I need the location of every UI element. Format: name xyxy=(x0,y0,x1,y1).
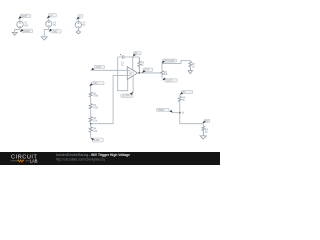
resistor R2 xyxy=(89,104,92,109)
wire flag A to op-amp + input xyxy=(91,69,128,71)
node flag B (top of divider) xyxy=(89,82,104,87)
svg-text:5V: 5V xyxy=(50,14,53,17)
svg-text:LAB: LAB xyxy=(30,159,38,164)
resistor R5 pull-up xyxy=(138,57,141,73)
svg-text:96V: 96V xyxy=(93,82,98,85)
capacitor C2 on rail xyxy=(120,54,124,59)
svg-text:ArduinoElectricRacing - 96V Tr: ArduinoElectricRacing - 96V Trigger High… xyxy=(56,153,130,157)
svg-text:5V: 5V xyxy=(205,120,208,123)
wire op-amp V+ supply stub xyxy=(132,57,134,70)
svg-text:5V: 5V xyxy=(129,74,132,77)
junction divider tap xyxy=(90,123,92,125)
resistor R7 xyxy=(189,62,192,71)
node flag right column top xyxy=(180,91,193,95)
ground (V2) xyxy=(41,37,47,40)
resistor R1 xyxy=(89,92,92,97)
wire op-amp inverting input xyxy=(113,74,127,76)
wire bottom right down + resistor R9 xyxy=(202,124,204,127)
wire op-amp output xyxy=(138,72,162,74)
supply rail wire xyxy=(118,56,140,58)
ground (V1) xyxy=(12,32,17,35)
op-amp OA1 xyxy=(127,67,137,80)
svg-text:OUTPUT: OUTPUT xyxy=(122,95,132,98)
wire V1 top xyxy=(19,19,21,21)
svg-text:700k: 700k xyxy=(93,95,99,98)
voltage source V2 xyxy=(46,21,52,27)
wire V1 bottom xyxy=(15,28,20,33)
node flag V1 bottom xyxy=(20,29,33,33)
node flag BATT (top of V1) xyxy=(18,14,31,19)
svg-text:http://circuitlab.com/c6vr4p8w: http://circuitlab.com/c6vr4p8wz3q xyxy=(56,158,105,162)
svg-text:GND: GND xyxy=(94,139,100,142)
wire V2 top xyxy=(48,18,50,20)
node flag output up xyxy=(162,59,177,63)
wire V3 bottom xyxy=(77,28,79,30)
svg-text:5V: 5V xyxy=(53,24,56,27)
wire op-amp V- stub down xyxy=(132,76,134,92)
ground node diamond (V3) xyxy=(76,30,80,33)
ground (R7) xyxy=(188,71,192,74)
node flag divider bottom xyxy=(91,138,104,143)
wire bottom rail (tap to inverting branch) xyxy=(91,123,113,125)
resistor R3 xyxy=(89,117,92,122)
svg-text:VDIV: VDIV xyxy=(96,66,102,69)
svg-text:OUT2: OUT2 xyxy=(166,80,173,83)
svg-text:5V: 5V xyxy=(183,91,186,94)
footer bar xyxy=(0,152,220,165)
svg-text:TRIGGER: TRIGGER xyxy=(164,60,175,63)
resistor R6 xyxy=(161,71,164,75)
resistor R4 xyxy=(89,127,92,132)
svg-text:5V: 5V xyxy=(82,24,85,27)
voltage source V3 xyxy=(75,22,81,28)
node flag D (below op-amp) xyxy=(121,92,134,98)
ground (bottom right) xyxy=(200,136,206,139)
wire right branch xyxy=(162,61,190,64)
svg-text:96V: 96V xyxy=(24,24,29,27)
resistor R9 xyxy=(202,126,205,136)
node flag A (op-amp + input net) xyxy=(91,65,105,71)
node flag V3 top xyxy=(76,15,83,20)
svg-text:GND: GND xyxy=(52,30,58,33)
wire R6 branch vertical xyxy=(161,63,163,78)
wire V2 bottom xyxy=(44,27,49,37)
resistor R8 xyxy=(178,97,181,102)
node flag W xyxy=(157,108,173,113)
svg-text:BATT: BATT xyxy=(22,15,28,18)
junction output/pullup xyxy=(139,72,141,74)
svg-text:100k: 100k xyxy=(93,106,99,109)
wire feedback left vertical xyxy=(118,57,128,91)
wire right column xyxy=(180,95,204,124)
node flag supply rail xyxy=(133,52,141,57)
wire V3 top xyxy=(77,20,79,22)
node flag output left xyxy=(142,68,153,73)
node flag bottom right corner xyxy=(202,119,209,123)
svg-text:VREF: VREF xyxy=(158,109,165,112)
wire flag W to junction xyxy=(173,112,180,114)
junction right column xyxy=(179,112,181,114)
node flag V2 bottom xyxy=(49,29,62,34)
voltage source V1 xyxy=(17,21,23,27)
node flag output down xyxy=(162,78,177,83)
wire divider chain xyxy=(90,86,92,138)
CircuitLab logo xyxy=(11,155,38,164)
wire inverting branch vertical xyxy=(112,75,114,123)
node flag V2 top xyxy=(47,14,57,19)
svg-text:GND2: GND2 xyxy=(23,30,30,33)
